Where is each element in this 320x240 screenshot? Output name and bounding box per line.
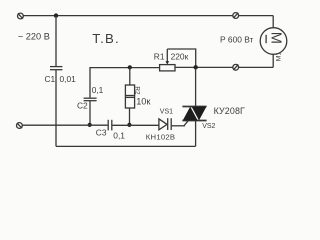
terminal X3 on top rail bbox=[233, 13, 239, 19]
terminal X2 bottom-left bbox=[17, 123, 23, 129]
wire triac cathode segment bbox=[195, 121, 197, 146]
wire bottom rail bbox=[56, 145, 196, 147]
dinistor VS1 bbox=[159, 118, 171, 130]
wire mid rail left segment bbox=[90, 68, 160, 98]
svg-text:0,1: 0,1 bbox=[113, 131, 125, 141]
wire gate rail left segment bbox=[22, 124, 107, 126]
node junction mid rail to R2 bbox=[128, 65, 132, 69]
resistor R2 bbox=[125, 85, 134, 108]
resistor R1 (potentiometer) bbox=[160, 49, 175, 71]
node junction R2 to gate rail bbox=[127, 123, 131, 127]
wire triac gate lead bbox=[184, 121, 188, 126]
capacitor C1 bbox=[50, 67, 62, 70]
node junction C2 to gate rail bbox=[88, 123, 92, 127]
svg-text:М: М bbox=[267, 32, 283, 44]
terminal X1 top-left bbox=[18, 13, 24, 19]
motor M1 bbox=[260, 28, 287, 55]
wire C1 lower segment (crosses gate rail, down to bottom rail) bbox=[55, 70, 57, 146]
capacitor C2 bbox=[84, 98, 97, 101]
triac VS2 bbox=[182, 107, 206, 121]
node junction R1 wiper to mid rail bbox=[194, 65, 198, 69]
svg-text:Т.В.: Т.В. bbox=[92, 31, 120, 46]
svg-text:C1: C1 bbox=[45, 74, 56, 84]
wire C1 upper segment bbox=[55, 16, 57, 67]
svg-text:0,01: 0,01 bbox=[60, 74, 77, 84]
svg-text:C3: C3 bbox=[96, 128, 107, 138]
wire triac anode segment bbox=[195, 67, 197, 106]
wire motor bottom lead bbox=[272, 54, 274, 67]
capacitor C3 bbox=[108, 120, 112, 131]
wire R1 wiper bracket bbox=[167, 49, 195, 67]
svg-text:Р 600 Вт: Р 600 Вт bbox=[220, 34, 254, 44]
wire motor top lead bbox=[272, 16, 274, 28]
wire top rail bbox=[23, 15, 273, 17]
wire R2 upper segment bbox=[129, 67, 131, 85]
node junction top rail to C1 bbox=[54, 13, 58, 17]
wire gate rail right segment bbox=[171, 125, 185, 127]
svg-text:VS1: VS1 bbox=[160, 108, 173, 115]
svg-text:R2: R2 bbox=[134, 86, 141, 95]
svg-text:220к: 220к bbox=[171, 51, 189, 61]
wire R2 lower segment bbox=[129, 108, 131, 125]
svg-text:VS2: VS2 bbox=[202, 123, 215, 130]
svg-text:10к: 10к bbox=[136, 96, 151, 106]
wire C2 lower segment bbox=[89, 101, 91, 125]
svg-text:КУ208Г: КУ208Г bbox=[214, 106, 245, 116]
svg-text:~ 220 В: ~ 220 В bbox=[18, 31, 50, 41]
svg-text:C2: C2 bbox=[77, 100, 88, 110]
wire mid rail right segment bbox=[175, 66, 273, 68]
svg-text:R1: R1 bbox=[154, 52, 165, 62]
svg-text:0,1: 0,1 bbox=[92, 85, 104, 95]
wire gate rail middle segment bbox=[112, 124, 158, 126]
svg-text:КН102В: КН102В bbox=[146, 132, 175, 141]
terminal X4 on mid rail bbox=[233, 64, 239, 70]
svg-text:М1: М1 bbox=[275, 52, 282, 62]
motor symbol M with tilde (rotated) bbox=[266, 32, 283, 44]
